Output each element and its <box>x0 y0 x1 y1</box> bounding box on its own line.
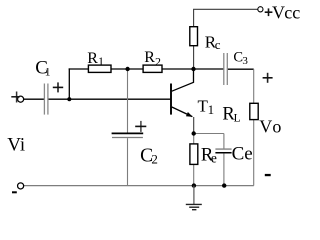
svg-text:1: 1 <box>45 65 51 79</box>
svg-text:c: c <box>215 37 221 52</box>
svg-text:e: e <box>211 150 217 165</box>
svg-text:1: 1 <box>208 102 215 117</box>
svg-text:o: o <box>272 117 281 137</box>
svg-text:V: V <box>259 117 272 137</box>
svg-text:cc: cc <box>284 2 300 22</box>
svg-text:R: R <box>87 50 98 67</box>
svg-text:V: V <box>272 2 285 22</box>
svg-text:R: R <box>144 49 155 66</box>
svg-text:1: 1 <box>98 54 104 68</box>
svg-text:Ce: Ce <box>232 144 253 165</box>
svg-text:3: 3 <box>242 55 248 67</box>
svg-text:L: L <box>234 113 241 125</box>
svg-text:Vi: Vi <box>7 134 25 155</box>
svg-text:2: 2 <box>155 55 161 69</box>
svg-text:2: 2 <box>151 152 158 167</box>
